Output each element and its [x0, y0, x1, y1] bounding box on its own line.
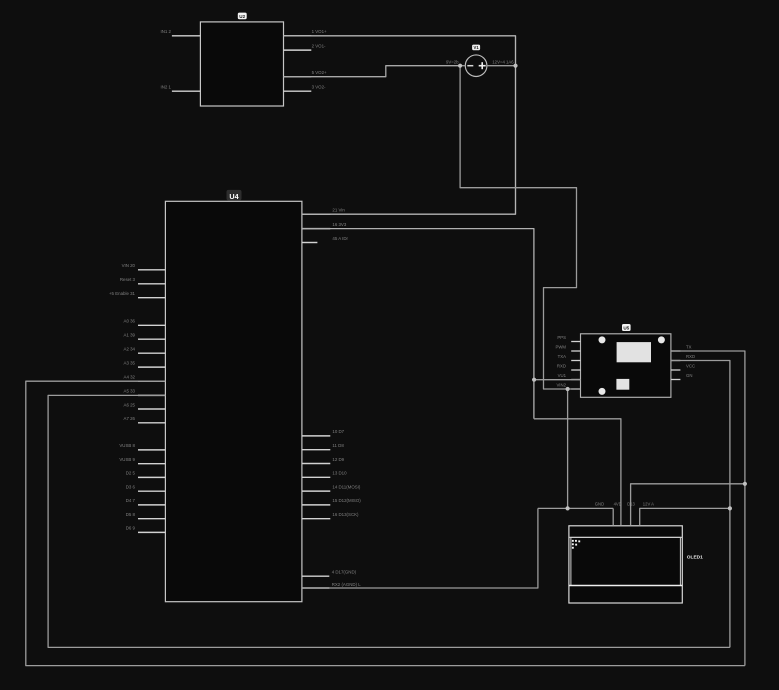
- svg-text:A5 33: A5 33: [124, 389, 136, 394]
- U4 right pin 21 Vin: [302, 208, 345, 215]
- U4 left pin VUSB 8: [119, 443, 165, 450]
- svg-text:VCC: VCC: [686, 363, 695, 368]
- U4 left pin A5 33: [124, 389, 166, 396]
- OLED1 screen area: [571, 537, 681, 585]
- V1 right terminal wire: [487, 65, 516, 67]
- U2 pin 2 VO1-: [284, 44, 327, 51]
- wire SDA branch to OLED pin3: [631, 484, 745, 526]
- U5 left pin VU1: [558, 373, 581, 379]
- svg-text:D6 9: D6 9: [126, 526, 136, 531]
- U5 right pin VCC: [671, 363, 695, 370]
- junction U5 VU1 node: [532, 378, 536, 382]
- svg-text:21 Vin: 21 Vin: [332, 208, 345, 213]
- wire SCL U5.RX to inner rail: [671, 361, 730, 648]
- wire SDA U5.TX to right rail: [671, 351, 745, 666]
- svg-text:+5 Enable 31: +5 Enable 31: [109, 291, 136, 296]
- U5 right pin GND: [671, 373, 693, 380]
- svg-text:16 3V3: 16 3V3: [332, 222, 346, 227]
- junction SDA node: [743, 482, 747, 486]
- U5 mounting hole top-left: [599, 336, 606, 343]
- svg-text:IN1 2: IN1 2: [161, 29, 172, 34]
- svg-text:GN: GN: [686, 373, 692, 378]
- wire GND U2.5 to V1-: [284, 66, 461, 77]
- OLED1 header line: [569, 536, 682, 538]
- svg-text:OLED1: OLED1: [687, 554, 703, 560]
- svg-text:RXD: RXD: [686, 354, 695, 359]
- junction V1 minus node: [458, 64, 462, 68]
- U4 right pin 10 D7: [302, 429, 345, 436]
- U4 left pin D3 6: [126, 485, 166, 492]
- svg-text:9V=2b: 9V=2b: [446, 59, 459, 64]
- U4 left pin A2 34: [124, 347, 166, 354]
- U4 left pin VUSB 9: [119, 457, 165, 464]
- svg-text:3 VO2-: 3 VO2-: [312, 85, 326, 90]
- U4 left pin A3 35: [124, 360, 166, 367]
- U5 left pin VIN2: [556, 383, 580, 389]
- U4 left pin A1 39: [124, 333, 166, 340]
- svg-text:12V A: 12V A: [643, 502, 654, 507]
- svg-text:5 VO2+: 5 VO2+: [312, 70, 327, 75]
- junction U5 VIN2 node: [566, 387, 570, 391]
- wire SDA bottom rail to U4.A4: [26, 381, 745, 665]
- V1 left value label: [446, 59, 459, 64]
- U5 left pin RXD: [557, 364, 581, 370]
- OLED1 pin-1 dot marks: [572, 540, 580, 549]
- U2 pin 1 VO1+: [284, 29, 328, 36]
- U4 right pin 12 D9: [302, 457, 345, 464]
- junction GND node at OLED: [566, 506, 570, 510]
- svg-text:2 VO1-: 2 VO1-: [312, 44, 326, 49]
- U5 reference tag: [622, 324, 631, 331]
- U4 left pin Reset 3: [120, 277, 166, 284]
- svg-text:D4 7: D4 7: [126, 498, 136, 503]
- U2 reference tag: [238, 13, 247, 20]
- U2 pin 3 VO2-: [284, 85, 327, 92]
- svg-text:15 D12(MISO): 15 D12(MISO): [332, 498, 361, 503]
- svg-text:VUSB 9: VUSB 9: [119, 457, 135, 462]
- MCU U4: [165, 201, 302, 601]
- svg-text:D13: D13: [627, 502, 635, 507]
- svg-text:A0 36: A0 36: [124, 319, 136, 324]
- svg-text:VIN2: VIN2: [556, 383, 566, 388]
- svg-text:PWM: PWM: [555, 345, 566, 350]
- U4 right pin 4 D17(GND): [302, 570, 357, 577]
- svg-text:A4 32: A4 32: [124, 375, 136, 380]
- wire SCL branch to OLED pin4: [640, 508, 730, 525]
- svg-text:D5 8: D5 8: [126, 512, 136, 517]
- svg-text:10 D7: 10 D7: [332, 429, 344, 434]
- svg-text:16 D13(SCK): 16 D13(SCK): [332, 512, 359, 517]
- U5 right pin RX: [671, 354, 695, 361]
- svg-text:VUSB 8: VUSB 8: [119, 443, 135, 448]
- svg-text:U4: U4: [229, 192, 238, 201]
- U4 left pin A0 36: [124, 319, 166, 326]
- svg-text:GND: GND: [595, 502, 604, 507]
- svg-text:D2 5: D2 5: [126, 471, 136, 476]
- wire 5V stub to U5 pin VU1: [534, 379, 581, 381]
- U2 pin 5 VO2+: [284, 70, 328, 77]
- svg-text:RX2 (AGND) L: RX2 (AGND) L: [332, 582, 362, 587]
- junction V1 plus node: [513, 64, 517, 68]
- U5 small pad: [616, 379, 629, 390]
- svg-text:U5: U5: [623, 326, 629, 331]
- svg-text:D3 6: D3 6: [126, 485, 136, 490]
- module U5: [581, 334, 671, 398]
- U4 left pin D5 8: [126, 512, 166, 519]
- U4 right pin RX2 AGND: [302, 582, 361, 588]
- U2 pin 2 IN1: [161, 29, 201, 36]
- svg-text:1 VO1+: 1 VO1+: [312, 29, 327, 34]
- svg-text:PPS: PPS: [557, 335, 566, 340]
- svg-text:4 D17(GND): 4 D17(GND): [332, 570, 357, 575]
- svg-text:12V=4 1A6: 12V=4 1A6: [492, 59, 514, 64]
- power converter U2: [200, 22, 283, 106]
- wire VIN+ net U2.1 to V1+ to U4.21: [284, 36, 516, 214]
- U5 mounting hole bottom-left: [599, 388, 606, 395]
- junction SCL node: [728, 506, 732, 510]
- wire GND to OLED pin1: [612, 508, 614, 525]
- U4 right pin 45 AIO: [302, 236, 349, 243]
- svg-text:TXA: TXA: [558, 354, 566, 359]
- svg-text:A2 34: A2 34: [124, 347, 136, 352]
- svg-text:RXD: RXD: [557, 364, 566, 369]
- wire GND down-left to U4: [302, 508, 538, 588]
- U5 shield pad: [617, 342, 651, 362]
- svg-text:12 D9: 12 D9: [332, 457, 344, 462]
- OLED1 bottom strip line: [569, 585, 682, 587]
- OLED1 pin labels: [595, 502, 654, 507]
- U5 left pin PPS: [557, 335, 580, 341]
- svg-text:A6 25: A6 25: [124, 402, 136, 407]
- svg-text:13 D10: 13 D10: [332, 471, 347, 476]
- V1 right value label: [492, 59, 514, 64]
- U5 mounting hole top-right: [658, 336, 665, 343]
- svg-text:Reset 3: Reset 3: [120, 277, 136, 282]
- OLED1 name label: [687, 554, 703, 560]
- wire GND V1- down to U5.VIN2: [460, 66, 580, 389]
- U4 left pin D4 7: [126, 498, 166, 505]
- U4 left pin +5 Enable 31: [109, 291, 165, 298]
- wire GND branch down from U5.VIN2: [567, 389, 569, 508]
- svg-text:TX: TX: [686, 344, 692, 349]
- svg-text:A7 26: A7 26: [124, 416, 136, 421]
- U4 right pin 16 D13(SCK): [302, 512, 359, 519]
- U4 left pin D6 9: [126, 526, 166, 533]
- wire SCL bottom rail to U4.A5: [48, 395, 730, 647]
- U4 left pin A4 32: [124, 375, 166, 382]
- wire GND horizontal at OLED: [538, 507, 613, 509]
- U4 right pin 11 D8: [302, 443, 344, 450]
- U4 left pin VIN 20: [122, 263, 166, 270]
- svg-text:VU1: VU1: [558, 373, 567, 378]
- U5 left pin PWM: [555, 345, 580, 351]
- V1 reference tag: [472, 45, 480, 51]
- svg-text:A1 39: A1 39: [124, 333, 136, 338]
- svg-text:IN2 1: IN2 1: [161, 85, 172, 90]
- svg-text:V1: V1: [474, 45, 480, 50]
- U4 right pin 14 D11(MOSI): [302, 484, 361, 491]
- voltage source V1: [465, 55, 487, 77]
- U4 left pin A7 26: [124, 416, 166, 423]
- U2 pin 1 IN2: [161, 85, 201, 92]
- svg-text:VIN 20: VIN 20: [122, 263, 136, 268]
- U4 reference tag: [227, 190, 242, 201]
- svg-text:45 A IDr: 45 A IDr: [332, 236, 348, 241]
- U4 right pin 13 D10: [302, 471, 347, 478]
- U4 right pin 15 D12(MISO): [302, 498, 361, 505]
- U5 left pin TXA: [558, 354, 581, 360]
- U5 right pin TX: [671, 344, 692, 351]
- wire 5V U4.16 to U5.VU1: [302, 229, 534, 419]
- wire 5V to OLED pin2: [534, 419, 621, 526]
- U4 right pin 16 3V3: [302, 222, 347, 229]
- OLED1 display body: [569, 526, 682, 603]
- V1 left terminal wire: [460, 65, 465, 67]
- svg-text:14 D11(MOSI): 14 D11(MOSI): [332, 484, 361, 489]
- U4 left pin A6 25: [124, 402, 166, 409]
- svg-text:11 D8: 11 D8: [332, 443, 344, 448]
- U4 left pin D2 5: [126, 471, 166, 478]
- svg-text:A3 35: A3 35: [124, 360, 136, 365]
- svg-text:U2: U2: [239, 14, 245, 19]
